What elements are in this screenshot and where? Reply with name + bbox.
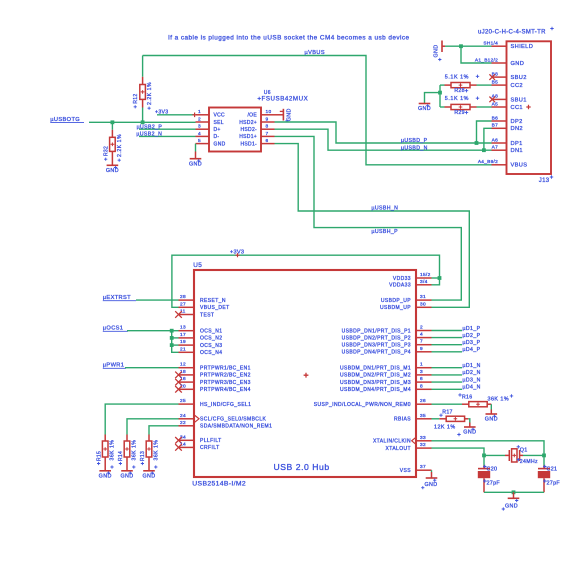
svg-text:3: 3 [198,124,201,130]
svg-text:2.2K 1%: 2.2K 1% [117,134,123,157]
svg-text:XTALIN/CLKIN: XTALIN/CLKIN [373,439,411,445]
svg-text:GND: GND [120,474,133,480]
svg-text:1: 1 [420,362,423,368]
svg-text:DP1: DP1 [511,141,523,147]
svg-text:µUSBD_N: µUSBD_N [401,145,428,151]
svg-text:DN2: DN2 [511,126,523,132]
svg-text:GND: GND [485,417,498,423]
svg-text:XTALOUT: XTALOUT [386,446,412,452]
svg-text:R29: R29 [454,110,464,116]
svg-text:µD3_N: µD3_N [463,377,481,383]
svg-text:GND: GND [286,108,292,121]
svg-text:32: 32 [420,442,426,448]
svg-text:GND: GND [505,503,518,509]
svg-text:TEST: TEST [200,312,214,318]
svg-text:PLLFILT: PLLFILT [200,438,222,444]
svg-text:OCS_N4: OCS_N4 [200,350,222,356]
svg-text:CRFILT: CRFILT [200,445,220,451]
svg-text:USBDM_DN1/PRT_DIS_M1: USBDM_DN1/PRT_DIS_M1 [340,366,411,372]
svg-text:USB2514B-I/M2: USB2514B-I/M2 [192,481,246,488]
svg-text:5.1K 1%: 5.1K 1% [445,96,469,102]
svg-text:OCS_N1: OCS_N1 [200,329,222,335]
svg-text:7: 7 [420,339,423,345]
svg-text:GND: GND [189,161,202,167]
svg-text:µUSBH_P: µUSBH_P [372,229,399,235]
svg-text:USBDP_DN3/PRT_DIS_P3: USBDP_DN3/PRT_DIS_P3 [342,343,411,349]
svg-text:36K 1%: 36K 1% [154,440,160,461]
svg-text:R14: R14 [118,451,124,461]
svg-text:9: 9 [266,116,269,122]
svg-text:µEXTRST: µEXTRST [103,295,131,301]
svg-text:USBDM_UP: USBDM_UP [380,305,411,311]
svg-text:USBDM_DN2/PRT_DIS_M2: USBDM_DN2/PRT_DIS_M2 [340,373,411,379]
svg-text:B6: B6 [492,115,498,121]
svg-text:4: 4 [198,131,201,137]
svg-text:DP2: DP2 [511,119,523,125]
svg-text:HSD1+: HSD1+ [239,134,257,140]
svg-text:17: 17 [180,332,186,338]
svg-text:If a cable is plugged into the: If a cable is plugged into the uUSB sock… [168,35,410,42]
svg-text:R12: R12 [133,94,139,104]
svg-text:5.1K 1%: 5.1K 1% [445,74,469,80]
svg-text:6: 6 [266,138,269,144]
svg-text:22: 22 [180,420,186,426]
svg-text:µOCS1: µOCS1 [103,326,124,332]
svg-text:USBDP_DN2/PRT_DIS_P2: USBDP_DN2/PRT_DIS_P2 [342,335,411,341]
svg-text:GND: GND [463,430,476,436]
svg-text:13: 13 [180,325,186,331]
svg-text:FSUSB42MUX: FSUSB42MUX [262,95,309,102]
svg-text:27pF: 27pF [487,481,501,487]
svg-text:3/4: 3/4 [420,279,428,285]
svg-text:31: 31 [420,294,426,300]
svg-text:5: 5 [198,138,201,144]
svg-text:B7: B7 [492,123,498,129]
svg-text:VDD33: VDD33 [393,276,411,282]
svg-text:A6: A6 [492,137,498,143]
svg-text:µUSB2_P: µUSB2_P [137,124,163,130]
svg-text:R17: R17 [442,410,452,416]
svg-text:RESET_N: RESET_N [200,298,226,304]
svg-text:µD2_N: µD2_N [463,370,481,376]
svg-text:OCS_N2: OCS_N2 [200,336,222,342]
svg-text:21: 21 [180,346,186,352]
svg-text:37: 37 [420,464,426,470]
svg-text:27: 27 [180,301,186,307]
svg-text:7: 7 [266,131,269,137]
svg-text:USBDM_DN4/PRT_DIS_M4: USBDM_DN4/PRT_DIS_M4 [340,387,411,393]
svg-text:µPWR1: µPWR1 [103,363,124,369]
svg-text:8: 8 [420,383,423,389]
svg-text:SEL: SEL [214,120,224,126]
svg-text:36K 1%: 36K 1% [488,396,510,402]
svg-text:PRTPWR3/BC_EN3: PRTPWR3/BC_EN3 [200,380,251,386]
svg-text:HSD2-: HSD2- [240,127,257,133]
svg-text:HS_IND/CFG_SEL1: HS_IND/CFG_SEL1 [200,402,251,408]
svg-text:GND: GND [418,106,431,112]
svg-text:R16: R16 [462,394,472,400]
svg-text:PRTPWR1/BC_EN1: PRTPWR1/BC_EN1 [200,366,251,372]
svg-text:PRTPWR2/BC_EN2: PRTPWR2/BC_EN2 [200,373,251,379]
svg-text:28: 28 [180,294,186,300]
svg-text:SUSP_IND/LOCAL_PWR/NON_REM0: SUSP_IND/LOCAL_PWR/NON_REM0 [314,402,411,408]
svg-text:VDDA33: VDDA33 [389,283,411,289]
svg-text:15/2: 15/2 [420,272,431,278]
svg-text:VSS: VSS [400,468,411,474]
svg-text:U5: U5 [193,262,202,269]
svg-text:µD4_N: µD4_N [463,385,481,391]
svg-text:GND: GND [214,141,226,147]
svg-text:2.2K 1%: 2.2K 1% [147,82,153,105]
svg-text:µD3_P: µD3_P [463,340,481,346]
svg-text:USBDM_DN3/PRT_DIS_M3: USBDM_DN3/PRT_DIS_M3 [340,380,411,386]
svg-text:USBDP_UP: USBDP_UP [381,298,411,304]
svg-text:µD1_P: µD1_P [463,326,481,332]
svg-text:GND: GND [434,44,440,57]
svg-text:µUSBH_N: µUSBH_N [372,206,399,212]
svg-text:GND: GND [511,61,525,67]
svg-text:SBU1: SBU1 [511,97,527,103]
svg-text:10: 10 [266,109,272,115]
svg-text:GND: GND [106,168,119,174]
svg-text:25: 25 [180,398,186,404]
svg-text:D+: D+ [214,127,221,133]
svg-text:SDA/SMBDATA/NON_REM1: SDA/SMBDATA/NON_REM1 [200,424,272,430]
svg-text:CC1: CC1 [511,105,523,111]
svg-text:µD4_P: µD4_P [463,347,481,353]
svg-text:µUSBD_P: µUSBD_P [401,138,428,144]
svg-text:R15: R15 [96,451,102,461]
svg-text:9: 9 [420,346,423,352]
svg-text:VBUS: VBUS [511,163,528,169]
svg-text:HSD2+: HSD2+ [239,120,257,126]
svg-text:SCL/CFG_SEL0/SMBCLK: SCL/CFG_SEL0/SMBCLK [200,417,266,423]
svg-text:GND: GND [142,474,155,480]
svg-text:2: 2 [420,325,423,331]
svg-text:PRTPWR4/BC_EN4: PRTPWR4/BC_EN4 [200,387,251,393]
svg-text:µVBUS: µVBUS [305,50,325,56]
svg-text:VCC: VCC [214,113,226,119]
svg-text:33: 33 [420,435,426,441]
svg-text:1: 1 [198,109,201,115]
svg-text:8: 8 [266,124,269,130]
svg-text:A7: A7 [492,145,498,151]
svg-text:19: 19 [180,339,186,345]
svg-text:uJ20-C-H-C-4-SMT-TR: uJ20-C-H-C-4-SMT-TR [478,30,546,36]
svg-text:USB 2.0 Hub: USB 2.0 Hub [274,462,330,472]
svg-text:Q1: Q1 [520,447,528,453]
svg-text:35: 35 [420,413,426,419]
svg-text:DN1: DN1 [511,148,523,154]
svg-text:µD1_N: µD1_N [463,363,481,369]
svg-text:OCS_N3: OCS_N3 [200,343,222,349]
svg-text:B5: B5 [492,79,498,85]
svg-text:+3V3: +3V3 [155,110,168,116]
svg-text:26: 26 [420,398,426,404]
svg-text:3: 3 [420,369,423,375]
svg-text:/OE: /OE [247,113,257,119]
svg-text:USBDP_DN4/PRT_DIS_P4: USBDP_DN4/PRT_DIS_P4 [342,350,411,356]
svg-text:R13: R13 [140,451,146,461]
svg-text:VBUS_DET: VBUS_DET [200,305,230,311]
svg-text:R28: R28 [454,88,464,94]
svg-text:C21: C21 [547,466,558,472]
svg-text:24MHz: 24MHz [520,459,538,465]
svg-text:36K 1%: 36K 1% [110,440,116,461]
svg-text:USBDP_DN1/PRT_DIS_P1: USBDP_DN1/PRT_DIS_P1 [342,328,411,334]
svg-text:24: 24 [180,413,186,419]
svg-text:HSD1-: HSD1- [240,141,257,147]
svg-text:RBIAS: RBIAS [394,417,411,423]
svg-text:6: 6 [420,376,423,382]
svg-text:J13: J13 [539,178,550,184]
svg-text:D-: D- [214,134,220,140]
svg-text:C20: C20 [487,466,498,472]
svg-text:µUSBOTG: µUSBOTG [50,117,80,123]
svg-text:27pF: 27pF [547,481,561,487]
svg-text:GND: GND [99,474,112,480]
svg-text:SHIELD: SHIELD [511,44,534,50]
svg-text:µD2_P: µD2_P [463,333,481,339]
svg-text:A4_B9/2: A4_B9/2 [478,159,498,165]
svg-text:CC2: CC2 [511,83,523,89]
svg-text:36K 1%: 36K 1% [132,440,138,461]
svg-text:GND: GND [425,482,438,488]
svg-text:µUSB2_N: µUSB2_N [136,132,162,138]
svg-text:R32: R32 [103,146,109,156]
svg-text:2: 2 [198,116,201,122]
svg-text:4: 4 [420,332,423,338]
svg-text:SBU2: SBU2 [511,75,527,81]
svg-text:12K 1%: 12K 1% [434,424,456,430]
svg-text:12: 12 [180,362,186,368]
svg-text:30: 30 [420,301,426,307]
